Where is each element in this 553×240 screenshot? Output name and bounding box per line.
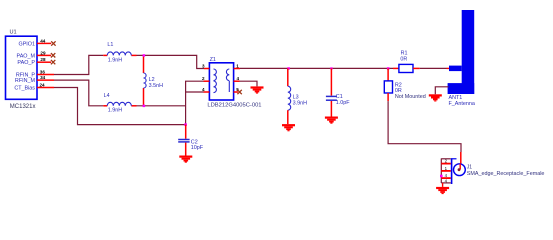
svg-text:4: 4: [202, 87, 205, 92]
svg-text:3.5nH: 3.5nH: [149, 83, 163, 89]
svg-text:1.9nH: 1.9nH: [108, 58, 122, 64]
svg-text:GPIO1: GPIO1: [19, 41, 35, 47]
svg-text:Not Mounted: Not Mounted: [395, 94, 426, 100]
Z1 pin 3: [202, 64, 209, 69]
wire main RF net: [240, 67, 447, 69]
svg-text:F_Antenna: F_Antenna: [449, 101, 475, 107]
svg-text:36: 36: [40, 70, 46, 75]
wire L1 to Z1 pin 3: [137, 55, 205, 68]
svg-text:PAO_P: PAO_P: [17, 60, 35, 66]
svg-text:4: 4: [237, 76, 240, 81]
node SMA shield junction: [440, 175, 443, 178]
svg-text:CT_Bias: CT_Bias: [14, 85, 35, 91]
svg-text:2: 2: [202, 76, 205, 81]
svg-text:PAO_M: PAO_M: [17, 53, 36, 59]
svg-text:Z1: Z1: [210, 57, 216, 63]
ground under SMA: [436, 187, 449, 194]
no-connect X on PAO_M: [51, 53, 55, 57]
pin 29 PAO_M: [37, 50, 51, 55]
pin 36 RFIN_P: [37, 70, 54, 75]
no-connect X on GPIO1: [51, 41, 55, 45]
wire CT_Bias to C2 node: [54, 88, 186, 125]
svg-text:34: 34: [40, 75, 46, 80]
svg-text:1.9nH: 1.9nH: [108, 108, 122, 114]
svg-text:J1: J1: [467, 164, 473, 170]
winding left upper: [214, 69, 217, 81]
ground at antenna: [429, 94, 442, 101]
capacitor C1 (shunt to ground): [326, 68, 350, 116]
svg-text:MC1321x: MC1321x: [10, 104, 36, 110]
svg-text:L1: L1: [107, 42, 113, 48]
node L3 junction: [287, 67, 290, 70]
svg-text:1: 1: [236, 64, 239, 69]
ground at Z1 right: [251, 86, 264, 93]
connector J1 coax circle: [454, 164, 545, 177]
svg-text:1.0pF: 1.0pF: [336, 100, 350, 106]
pin 44 GPIO1: [37, 38, 51, 43]
wire SMA shield to ground: [442, 183, 444, 187]
node C2 junction: [184, 123, 187, 126]
wire antenna short arm to ground: [435, 87, 448, 95]
wire RFIN_M to L4 row: [54, 80, 103, 106]
svg-text:28: 28: [40, 57, 46, 62]
Z1 pin 4 left: [202, 87, 209, 92]
resistor R1: [393, 51, 420, 73]
ground under C2: [179, 156, 192, 163]
Z1 pin 5 with no-connect X: [234, 87, 240, 92]
Z1 pin 1: [234, 64, 240, 69]
no-connect X on PAO_P: [51, 60, 55, 64]
connector J1 SMA body pins: [441, 158, 456, 184]
winding right: [226, 69, 229, 81]
IC U1 MC1321x: [6, 30, 38, 110]
node L2 bottom junction: [143, 105, 146, 108]
resistor R2 (not mounted): [384, 68, 425, 101]
svg-text:29: 29: [40, 50, 46, 55]
svg-text:RFIN_M: RFIN_M: [15, 78, 36, 84]
inductor L3 (shunt to ground): [288, 68, 307, 124]
winding left lower: [214, 81, 217, 93]
wire center vertical to Z1 pins 2 and 4: [186, 81, 204, 124]
svg-text:LDB212G4005C-001: LDB212G4005C-001: [207, 102, 261, 108]
node R2 junction: [387, 67, 390, 70]
capacitor C2: [178, 125, 204, 156]
inductor L4: [103, 93, 136, 114]
antenna ANT1 (F antenna): [448, 10, 475, 94]
node C1 junction: [330, 67, 332, 69]
wire drop into SMA center: [460, 152, 462, 164]
Z1 pin 4 right: [234, 76, 240, 81]
svg-text:L4: L4: [104, 93, 110, 99]
balun Z1: [207, 57, 261, 109]
ground under L3: [282, 124, 295, 131]
pin 34 RFIN_M: [37, 75, 54, 80]
pin 28 PAO_P: [37, 57, 51, 62]
svg-text:10pF: 10pF: [191, 145, 204, 151]
svg-text:24: 24: [40, 83, 46, 88]
Z1 pin 2: [202, 76, 209, 81]
svg-text:0R: 0R: [400, 56, 407, 62]
wire Z1 pin4 right to ground: [240, 81, 258, 86]
wire RFIN_P to L1 row: [54, 55, 103, 74]
svg-text:U1: U1: [10, 30, 17, 36]
wire L4 to center vertical: [137, 105, 186, 107]
svg-text:44: 44: [40, 38, 46, 43]
inductor L2 (shunt): [144, 55, 164, 105]
svg-text:3.9nH: 3.9nH: [293, 100, 307, 106]
wire R2 to SMA connector: [388, 101, 461, 152]
pin 24 CT_Bias: [37, 83, 54, 88]
wire stub into antenna feed: [447, 67, 451, 69]
ground under C1: [325, 117, 338, 124]
inductor L1: [103, 42, 136, 64]
node L2 top junction: [143, 54, 146, 57]
svg-text:SMA_edge_Receptacle_Female: SMA_edge_Receptacle_Female: [467, 171, 545, 177]
svg-text:3: 3: [202, 64, 205, 69]
